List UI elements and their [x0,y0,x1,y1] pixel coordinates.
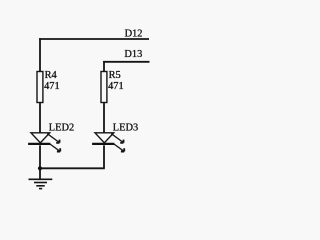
wire LED3 down to bottom rail [103,145,105,168]
wire R5 to LED3 [103,103,105,133]
wire LED2 to ground node [39,145,41,179]
svg-text:R4: R4 [45,70,58,81]
svg-text:LED2: LED2 [49,123,74,134]
wire bottom rail horizontal [40,167,105,169]
resistor R4 [37,70,60,102]
ground [29,179,53,188]
LED2 diode [28,123,74,152]
wire left branch vertical from D12 to R4 [39,38,41,71]
svg-text:471: 471 [44,81,60,92]
svg-text:D13: D13 [124,49,142,60]
resistor R5 [101,70,124,102]
wire net D12 horizontal [39,38,149,40]
wire right branch vertical from D13 to R5 [103,61,105,72]
wire net D13 horizontal [103,61,149,63]
LED3 diode [92,123,138,152]
svg-text:471: 471 [108,81,124,92]
svg-text:R5: R5 [109,70,121,81]
junction node [38,166,42,170]
svg-text:LED3: LED3 [113,123,138,134]
wire R4 to LED2 [39,103,41,133]
svg-text:D12: D12 [125,28,143,39]
